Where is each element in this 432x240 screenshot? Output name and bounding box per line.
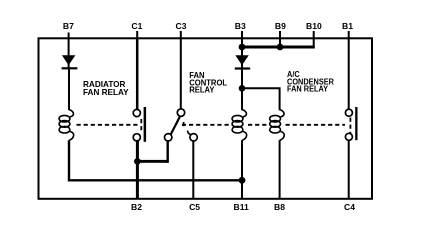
relay module case outline xyxy=(39,38,373,199)
relay coil (radiator fan relay) xyxy=(59,110,74,141)
wire: B1 down to A/C contact xyxy=(348,40,350,110)
wire: C3 down to fan control contact xyxy=(180,40,182,109)
wire: B7 into diode xyxy=(68,40,70,68)
svg-text:B8: B8 xyxy=(274,202,285,212)
terminal B1 xyxy=(342,21,353,39)
svg-text:C4: C4 xyxy=(344,202,355,212)
junction: coil feed branch xyxy=(239,85,246,92)
svg-text:B3: B3 xyxy=(235,21,246,31)
relay coil (A/C condenser fan relay) xyxy=(270,110,285,141)
junction: bus at B3 xyxy=(239,44,246,51)
wire: branch to A/C condenser coil xyxy=(242,88,280,110)
wire: A/C contact down to C4 xyxy=(348,140,350,199)
svg-text:B7: B7 xyxy=(63,21,74,31)
wire: diode down to branch node xyxy=(241,70,243,89)
svg-text:C1: C1 xyxy=(131,21,142,31)
relay contact (fan control relay, SPDT) xyxy=(165,109,198,141)
wire: arm contact riser xyxy=(166,141,168,163)
relay contact (A/C condenser fan relay, NO) xyxy=(345,107,357,140)
svg-text:B2: B2 xyxy=(131,202,142,212)
wire: B10 drop to bus xyxy=(313,40,315,49)
svg-text:RADIATORFAN RELAY: RADIATORFAN RELAY xyxy=(83,80,129,97)
wire: B11 node to border xyxy=(241,180,243,199)
wire: B3/B9/B10 bus xyxy=(242,46,315,49)
wire: B2 node to switched arm contact xyxy=(136,160,169,163)
wire: radiator coil down and across to B11 node xyxy=(69,140,242,180)
svg-text:B10: B10 xyxy=(306,21,322,31)
terminal B3 xyxy=(235,21,246,39)
terminal C1 xyxy=(131,21,142,39)
terminal C3 xyxy=(176,21,187,39)
terminal B9 xyxy=(275,21,286,39)
svg-text:B11: B11 xyxy=(234,202,250,212)
mechanical linkage (dashed) xyxy=(77,118,351,134)
svg-text:C5: C5 xyxy=(189,202,200,212)
wire: branch down to fan control coil xyxy=(241,88,243,110)
relay coil (fan control relay) xyxy=(232,110,247,141)
diode (radiator fan relay suppression) xyxy=(62,55,78,69)
wire: C1 down to radiator contact xyxy=(136,40,139,110)
svg-text:B9: B9 xyxy=(275,21,286,31)
wire: B9 drop to bus xyxy=(279,40,281,49)
svg-text:B1: B1 xyxy=(342,21,353,31)
svg-text:C3: C3 xyxy=(176,21,187,31)
junction: B2 node xyxy=(134,158,141,165)
wire: radiator contact to B2 xyxy=(136,141,139,199)
wire: fan control NC contact to C5 xyxy=(192,141,194,199)
wire: B3 drop to bus xyxy=(241,40,243,68)
junction: bus at B9 xyxy=(277,44,284,51)
diode (A/C condenser fan relay suppression) xyxy=(235,55,250,69)
wire: A/C coil down to B8 xyxy=(279,140,281,199)
junction: B11 node xyxy=(239,177,246,184)
wire: diode to radiator relay coil xyxy=(68,69,70,110)
terminal B7 xyxy=(63,21,74,39)
terminal B10 xyxy=(306,21,322,39)
wire: fan control coil down to B11 node xyxy=(241,140,243,180)
relay contact (radiator fan relay, NO) xyxy=(133,107,146,142)
